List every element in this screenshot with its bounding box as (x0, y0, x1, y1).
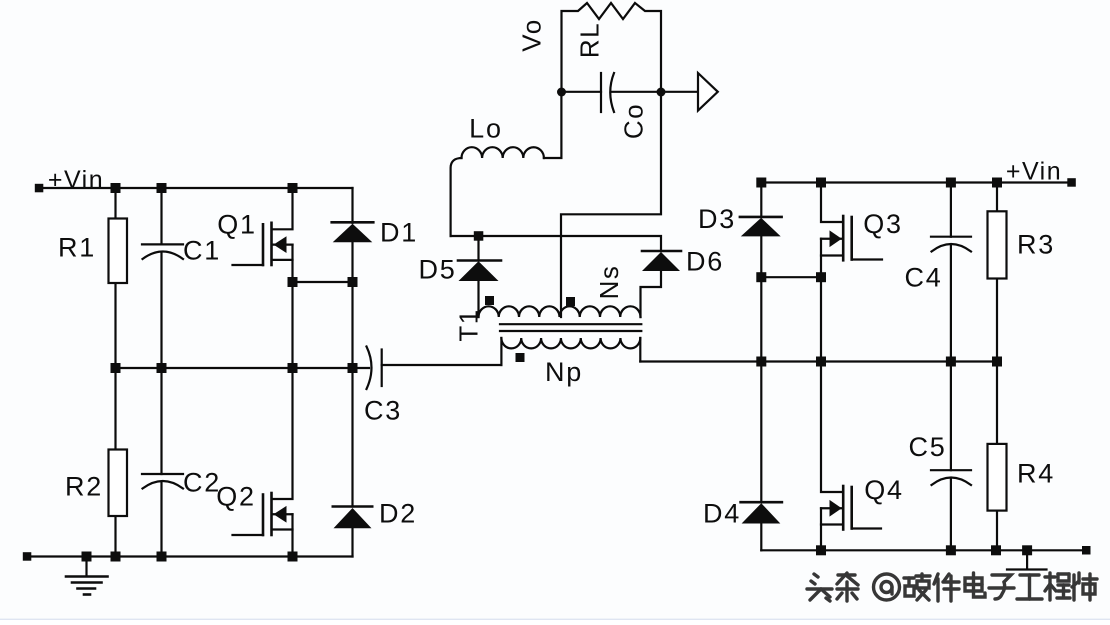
svg-text:D6: D6 (686, 247, 724, 277)
svg-text:D2: D2 (379, 499, 417, 529)
svg-text:D4: D4 (703, 499, 741, 529)
svg-text:T1: T1 (453, 308, 483, 341)
svg-text:Ns: Ns (594, 265, 624, 300)
svg-text:RL: RL (574, 22, 604, 58)
svg-text:C5: C5 (908, 432, 946, 462)
svg-text:Q2: Q2 (216, 482, 256, 512)
svg-text:C4: C4 (904, 263, 942, 293)
svg-text:C1: C1 (183, 236, 221, 266)
svg-text:C3: C3 (364, 396, 402, 426)
svg-text:Q3: Q3 (863, 209, 903, 239)
svg-text:D1: D1 (380, 218, 418, 248)
svg-text:D3: D3 (698, 204, 736, 234)
svg-text:R2: R2 (65, 472, 103, 502)
svg-text:+Vin: +Vin (48, 166, 104, 194)
svg-text:Q4: Q4 (864, 475, 904, 505)
svg-text:Q1: Q1 (217, 210, 257, 240)
svg-text:D5: D5 (418, 255, 456, 285)
svg-text:R3: R3 (1017, 230, 1055, 260)
svg-text:Np: Np (545, 357, 583, 387)
svg-text:Co: Co (618, 103, 648, 139)
svg-text:R4: R4 (1017, 459, 1055, 489)
svg-text:R1: R1 (58, 233, 96, 263)
svg-text:Vo: Vo (516, 18, 546, 51)
svg-text:Lo: Lo (469, 114, 503, 144)
svg-text:+Vin: +Vin (1006, 158, 1062, 186)
